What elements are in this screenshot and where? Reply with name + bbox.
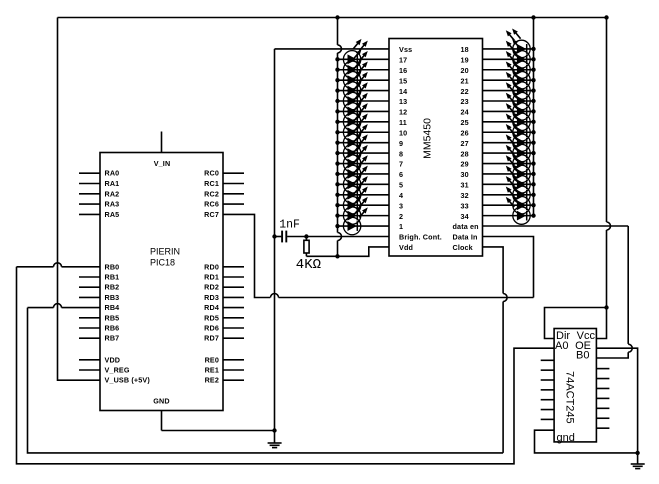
junction dot +5V rail right corner	[604, 15, 608, 19]
wire Dir branch	[545, 308, 607, 339]
U1 pin stub RB2	[79, 286, 100, 288]
svg-text:33: 33	[461, 201, 469, 210]
svg-text:RA0: RA0	[105, 169, 120, 178]
svg-text:15: 15	[399, 76, 407, 85]
wire MM5450 pin 6 row (bus to chip)	[338, 173, 390, 175]
U1 left pin labels	[105, 169, 151, 385]
buffer U3 74ACT245 body	[554, 329, 596, 442]
svg-text:RC7: RC7	[204, 210, 219, 219]
U1 pin GND bottom stub	[161, 411, 163, 431]
svg-text:30: 30	[461, 170, 469, 179]
svg-text:26: 26	[461, 128, 469, 137]
U1 pin stub RC0	[223, 172, 244, 174]
U3 right pin stub B1	[596, 368, 609, 370]
junction dot C1 left at ground line	[272, 234, 276, 238]
U1 pin stub RB1	[79, 276, 100, 278]
LED D20 on MM5450 pin 20	[506, 49, 530, 78]
svg-text:RA1: RA1	[105, 179, 120, 188]
U1 pin stub RB3	[79, 296, 100, 298]
U1 pin stub RD2	[223, 286, 244, 288]
U1 pin stub RD7	[223, 337, 244, 339]
svg-text:RE1: RE1	[205, 366, 219, 375]
wire net Brightness: cap/resistor row y=235.4	[275, 236, 282, 238]
svg-text:20: 20	[461, 66, 469, 75]
U1 pin stub RA3	[79, 203, 100, 205]
LED D30 on MM5450 pin 30	[506, 154, 530, 183]
U1 pin stub RB6	[79, 327, 100, 329]
wire MM5450 pin 3 row (bus to chip)	[338, 204, 390, 206]
U1 pin stub RC1	[223, 183, 244, 185]
svg-text:RE0: RE0	[205, 355, 219, 364]
U3 left pin stub A4	[541, 389, 554, 391]
wire MM5450 pin 7 row (bus to chip)	[338, 163, 390, 165]
wire MM5450 pin 24 row (chip to bus)	[483, 110, 534, 112]
svg-text:RC0: RC0	[204, 169, 219, 178]
svg-text:PIC18: PIC18	[150, 258, 175, 268]
junction dot ground node right	[635, 451, 639, 455]
resistor R1 4K	[304, 237, 309, 257]
svg-text:V_IN: V_IN	[154, 159, 171, 168]
U1 pin label GND	[153, 397, 169, 406]
svg-text:19: 19	[461, 56, 469, 65]
U3 right pin stub B6	[596, 417, 609, 419]
wire U1 GND to ground node	[162, 430, 275, 432]
svg-text:21: 21	[461, 76, 469, 85]
svg-text:25: 25	[461, 118, 469, 127]
svg-text:RB5: RB5	[105, 313, 120, 322]
LED D11 on MM5450 pin 11	[343, 101, 367, 130]
LED D9 on MM5450 pin 9	[343, 122, 367, 151]
LED D2 on MM5450 pin 2	[343, 195, 367, 224]
wire net RC7 to U2 Data In	[223, 214, 270, 297]
svg-text:Brigh. Cont.: Brigh. Cont.	[399, 233, 442, 242]
svg-text:34: 34	[461, 212, 469, 221]
LED D26 on MM5450 pin 26	[506, 112, 530, 141]
wire +5V from rail down to U1 V_USB pin	[58, 18, 101, 381]
LED D5 on MM5450 pin 5	[343, 164, 367, 193]
U1 pin stub RD5	[223, 317, 244, 319]
wire MM5450 pin 20 row (chip to bus)	[483, 69, 534, 71]
svg-text:9: 9	[399, 139, 403, 148]
svg-text:4KΩ: 4KΩ	[296, 257, 321, 273]
LED D31 on MM5450 pin 31	[506, 164, 530, 193]
wire MM5450 pin 34 row (chip to bus)	[483, 215, 534, 217]
U1 pin stub RB7	[79, 337, 100, 339]
wire MM5450 pin 5 row (bus to chip)	[338, 183, 390, 185]
wire MM5450 pin 17 row (bus to chip)	[338, 58, 390, 60]
LED D17 on MM5450 pin 17	[343, 39, 367, 68]
wire MM5450 pin 14 row (bus to chip)	[338, 90, 390, 92]
svg-text:A0: A0	[555, 340, 568, 352]
svg-text:VDD: VDD	[105, 355, 121, 364]
LED D27 on MM5450 pin 27	[506, 122, 530, 151]
U1 pin stub VDD	[79, 359, 100, 361]
U3 left pin stub A2	[541, 369, 554, 371]
wire MM5450 pin 32 row (chip to bus)	[483, 194, 534, 196]
LED D6 on MM5450 pin 6	[343, 154, 367, 183]
LED D12 on MM5450 pin 12	[343, 91, 367, 120]
wire net data en to U3 B0	[483, 225, 629, 227]
svg-text:GND: GND	[153, 397, 169, 406]
svg-text:PIERIN: PIERIN	[150, 247, 180, 257]
svg-text:RD2: RD2	[204, 283, 219, 292]
wire C1 right to resistor top / Brigh. Cont.	[287, 236, 389, 238]
U3 right pin stub B4	[596, 397, 609, 399]
svg-text:74ACT245: 74ACT245	[564, 371, 576, 424]
U2 name label MM5450 (rotated)	[422, 118, 434, 159]
svg-text:RD4: RD4	[204, 303, 219, 312]
svg-text:31: 31	[461, 181, 469, 190]
U1 pin stub RE1	[223, 369, 244, 371]
wire net Clock rise to U2 Clock pin (with hop over Data In)	[502, 302, 504, 453]
U2 left pin labels	[399, 45, 442, 252]
wire MM5450 pin 19 row (chip to bus)	[483, 58, 534, 60]
wire MM5450 pin 15 row (bus to chip)	[338, 79, 390, 81]
LED D16 on MM5450 pin 16	[343, 49, 367, 78]
svg-text:RA2: RA2	[105, 189, 120, 198]
wire MM5450 pin 29 row (chip to bus)	[483, 163, 534, 165]
U1 pin stub V_REG	[79, 369, 100, 371]
wire MM5450 pin 18 row (chip to bus)	[483, 48, 534, 50]
svg-text:22: 22	[461, 87, 469, 96]
wire MM5450 pin 23 row (chip to bus)	[483, 100, 534, 102]
wire MM5450 pin 9 row (bus to chip)	[338, 142, 390, 144]
wire Vcc continuation	[596, 308, 606, 339]
svg-text:RD6: RD6	[204, 324, 219, 333]
U1 pin stub RD3	[223, 296, 244, 298]
svg-text:Vss: Vss	[399, 45, 412, 54]
wire net RB4 to U2 Clock: stub from U1 RB4	[28, 307, 54, 309]
svg-text:5: 5	[399, 181, 403, 190]
wire +5V right drop to Vcc/Dir	[606, 18, 608, 223]
U3 name label 74ACT245 (rotated)	[564, 371, 576, 424]
U3 right pin stub B5	[596, 407, 609, 409]
svg-text:gnd: gnd	[557, 432, 575, 444]
junction dot right bus at +5V rail	[531, 15, 535, 19]
svg-text:RD5: RD5	[204, 313, 219, 322]
LED D3 on MM5450 pin 3	[343, 185, 367, 214]
svg-text:V_REG: V_REG	[105, 366, 130, 375]
junction dot left bus at +5V rail	[335, 15, 339, 19]
U1 right pin labels	[204, 169, 219, 385]
wire MM5450 pin 2 row (bus to chip)	[338, 215, 390, 217]
wire MM5450 pin 4 row (bus to chip)	[338, 194, 390, 196]
capacitor C1	[282, 231, 286, 243]
wire MM5450 pin 8 row (bus to chip)	[338, 152, 390, 154]
U3 left pin stub A5	[541, 399, 554, 401]
U1 pin stub RE2	[223, 379, 244, 381]
svg-text:24: 24	[461, 108, 469, 117]
junction dot Dir/Vcc branch	[604, 305, 608, 309]
U3 right pin stub B3	[596, 387, 609, 389]
wire MM5450 pin 25 row (chip to bus)	[483, 121, 534, 123]
LED D23 on MM5450 pin 23	[506, 81, 530, 110]
LED D18 on MM5450 pin 18	[506, 29, 530, 58]
wire MM5450 pin 1 row (bus to chip)	[338, 225, 390, 227]
U1 pin stub RD1	[223, 276, 244, 278]
svg-text:11: 11	[399, 118, 407, 127]
wire MM5450 pin 13 row (bus to chip)	[338, 100, 390, 102]
svg-text:10: 10	[399, 128, 407, 137]
wire net RB4 vertical + bottom rail	[28, 308, 504, 453]
svg-text:7: 7	[399, 160, 403, 169]
U3 right pin stub B7	[596, 427, 609, 429]
LED D15 on MM5450 pin 15	[343, 60, 367, 89]
svg-text:3: 3	[399, 201, 403, 210]
U3 left pin stub A7	[541, 418, 554, 420]
R1 value label 4K ohm	[296, 257, 321, 273]
svg-text:32: 32	[461, 191, 469, 200]
svg-text:16: 16	[399, 66, 407, 75]
svg-text:28: 28	[461, 149, 469, 158]
wire net RB0 to U3 A0: stub from U1 RB0	[17, 266, 54, 268]
LED D34 on MM5450 pin 34	[506, 195, 530, 224]
U1 pin stub RA0	[79, 172, 100, 174]
LED D4 on MM5450 pin 4	[343, 174, 367, 203]
LED D8 on MM5450 pin 8	[343, 133, 367, 162]
svg-text:MM5450: MM5450	[422, 118, 434, 159]
C1 value label 1nF	[279, 219, 300, 232]
svg-text:RB6: RB6	[105, 324, 120, 333]
LED D14 on MM5450 pin 14	[343, 70, 367, 99]
U3 left pin stub A1	[541, 359, 554, 361]
LED D10 on MM5450 pin 10	[343, 112, 367, 141]
svg-text:29: 29	[461, 160, 469, 169]
LED driver U2 MM5450 body	[389, 39, 483, 257]
U2 right pin labels	[453, 45, 479, 252]
svg-text:4: 4	[399, 191, 403, 200]
LED D33 on MM5450 pin 33	[506, 185, 530, 214]
junction dots on right LED bus	[531, 47, 535, 218]
U1 pin stub RD0	[223, 266, 244, 268]
U1 pin stub RA5	[79, 213, 100, 215]
svg-text:RB1: RB1	[105, 273, 120, 282]
LED D1 on MM5450 pin 1	[343, 206, 367, 235]
ground symbol (left)	[268, 431, 282, 448]
LED D13 on MM5450 pin 13	[343, 81, 367, 110]
svg-text:13: 13	[399, 97, 407, 106]
svg-text:RD7: RD7	[204, 334, 219, 343]
U3 right pin stub B2	[596, 378, 609, 380]
wire MM5450 pin 30 row (chip to bus)	[483, 173, 534, 175]
U1 pin stub RD6	[223, 327, 244, 329]
wire LED anode bus (left column)	[337, 18, 339, 45]
U3 left pin stub A3	[541, 379, 554, 381]
svg-text:RB3: RB3	[105, 293, 120, 302]
wire U3 gnd to ground node	[535, 430, 638, 453]
svg-text:1nF: 1nF	[279, 219, 300, 232]
wire MM5450 pin 33 row (chip to bus)	[483, 204, 534, 206]
U1 name label	[150, 247, 180, 268]
U1 pin stub RE0	[223, 359, 244, 361]
U1 pin V_IN top stub	[161, 132, 163, 153]
wire MM5450 pin 10 row (bus to chip)	[338, 131, 390, 133]
svg-text:Clock: Clock	[453, 243, 473, 252]
LED D25 on MM5450 pin 25	[506, 101, 530, 130]
svg-text:V_USB (+5V): V_USB (+5V)	[105, 376, 151, 385]
wire MM5450 pin 28 row (chip to bus)	[483, 152, 534, 154]
LED D29 on MM5450 pin 29	[506, 143, 530, 172]
LED D22 on MM5450 pin 22	[506, 70, 530, 99]
LED D7 on MM5450 pin 7	[343, 143, 367, 172]
wire resistor bottom to Vdd pin of U2	[306, 247, 389, 256]
svg-text:RC1: RC1	[204, 179, 219, 188]
LED D19 on MM5450 pin 19	[506, 39, 530, 68]
svg-text:RB7: RB7	[105, 334, 120, 343]
junction dot LED bus bottom joins Vdd wire	[335, 254, 339, 258]
junction dot ground node left	[272, 428, 276, 432]
wire LED anode bus (right column)	[533, 18, 535, 216]
svg-text:8: 8	[399, 149, 403, 158]
wire MM5450 pin 11 row (bus to chip)	[338, 121, 390, 123]
wire +5V top rail	[58, 17, 607, 19]
svg-text:RD1: RD1	[204, 273, 219, 282]
wire MM5450 pin 26 row (chip to bus)	[483, 131, 534, 133]
wire MM5450 pin 31 row (chip to bus)	[483, 183, 534, 185]
svg-text:RA5: RA5	[105, 210, 120, 219]
junction dots on left LED bus	[335, 57, 339, 228]
wire MM5450 pin 16 row (bus to chip)	[338, 69, 390, 71]
svg-text:27: 27	[461, 139, 469, 148]
svg-text:RC6: RC6	[204, 200, 219, 209]
wire ground vertical x=274	[274, 49, 276, 431]
wire net OE to ground	[596, 348, 637, 453]
U3 left pin stub A6	[541, 409, 554, 411]
LED D24 on MM5450 pin 24	[506, 91, 530, 120]
U1 pin label V_IN	[154, 159, 171, 168]
svg-text:14: 14	[399, 87, 407, 96]
svg-text:23: 23	[461, 97, 469, 106]
U1 pin stub RC2	[223, 193, 244, 195]
wire net Vss to ground: U2 Vss pin left	[275, 48, 390, 50]
svg-text:B0: B0	[576, 349, 589, 361]
svg-text:RA3: RA3	[105, 200, 120, 209]
svg-text:18: 18	[461, 45, 469, 54]
svg-text:2: 2	[399, 212, 403, 221]
LED D32 on MM5450 pin 32	[506, 174, 530, 203]
U1 pin stub RB5	[79, 317, 100, 319]
svg-text:data en: data en	[453, 222, 479, 231]
svg-text:RB4: RB4	[105, 303, 120, 312]
svg-text:RB0: RB0	[105, 262, 120, 271]
wire MM5450 pin 27 row (chip to bus)	[483, 142, 534, 144]
svg-text:RE2: RE2	[205, 376, 219, 385]
wire MM5450 pin 12 row (bus to chip)	[338, 110, 390, 112]
LED D28 on MM5450 pin 28	[506, 133, 530, 162]
svg-text:RC2: RC2	[204, 189, 219, 198]
microcontroller U1 PIERIN PIC18 body	[100, 153, 223, 411]
svg-text:1: 1	[399, 222, 403, 231]
svg-text:Vdd: Vdd	[399, 243, 413, 252]
U1 pin stub RA1	[79, 183, 100, 185]
svg-text:6: 6	[399, 170, 403, 179]
svg-text:RB2: RB2	[105, 283, 120, 292]
LED D21 on MM5450 pin 21	[506, 60, 530, 89]
svg-text:12: 12	[399, 108, 407, 117]
U1 pin stub RD4	[223, 307, 244, 309]
U1 pin stub RA2	[79, 193, 100, 195]
wire net RB0 vertical + bottom rail + rise to U3 A0	[17, 267, 555, 464]
svg-text:17: 17	[399, 56, 407, 65]
junction dot resistor top	[304, 234, 308, 238]
wire MM5450 pin 22 row (chip to bus)	[483, 90, 534, 92]
U1 pin stub RC6	[223, 203, 244, 205]
svg-text:RD3: RD3	[204, 293, 219, 302]
svg-text:Data In: Data In	[453, 233, 478, 242]
svg-text:RD0: RD0	[204, 262, 219, 271]
wire MM5450 pin 21 row (chip to bus)	[483, 79, 534, 81]
ground symbol (right)	[631, 453, 645, 469]
U3 pin labels Dir Vcc A0 OE B0 gnd	[555, 330, 595, 444]
